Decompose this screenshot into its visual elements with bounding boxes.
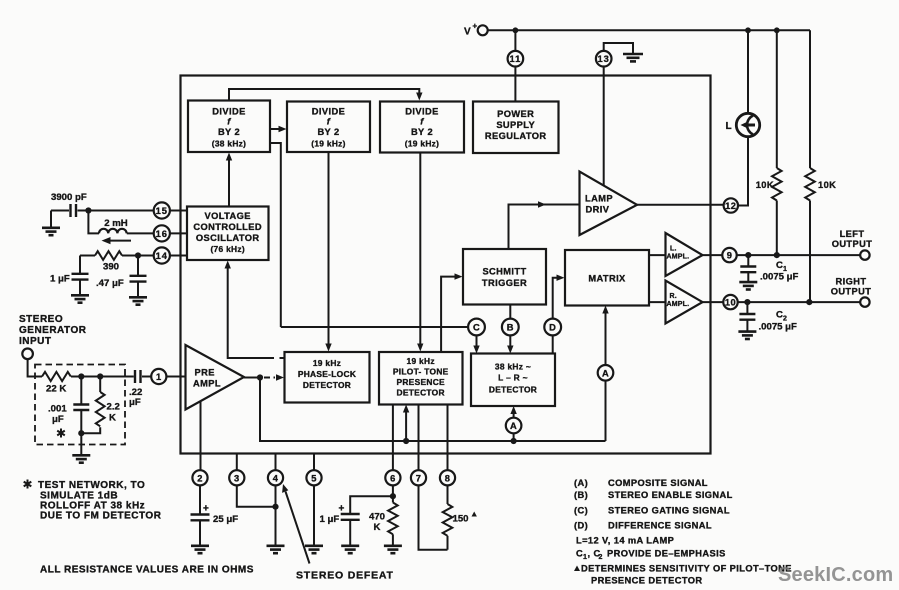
wire lamp to pin 12 bbox=[738, 137, 748, 206]
pin 3 bbox=[229, 470, 244, 485]
svg-text:.0075 μF: .0075 μF bbox=[760, 272, 799, 283]
matrix block bbox=[565, 250, 649, 306]
svg-text:C: C bbox=[776, 310, 783, 321]
wire pin 7 to 150 bottom bbox=[419, 485, 448, 549]
svg-text:BY 2: BY 2 bbox=[218, 127, 240, 137]
svg-text:2 mH: 2 mH bbox=[104, 218, 128, 229]
wire node A left into L-R detector bbox=[510, 406, 516, 418]
ground top right bbox=[623, 54, 643, 61]
legend stereo gating signal bbox=[574, 505, 730, 515]
stereo defeat pointer arrow bbox=[282, 484, 394, 582]
svg-text:REGULATOR: REGULATOR bbox=[485, 131, 547, 141]
svg-text:(19 kHz): (19 kHz) bbox=[405, 139, 440, 149]
svg-text:TRIGGER: TRIGGER bbox=[482, 278, 527, 288]
svg-text:+: + bbox=[473, 22, 478, 31]
ground under .47uF bbox=[129, 297, 147, 304]
svg-text:L=12 V, 14 mA LAMP: L=12 V, 14 mA LAMP bbox=[576, 536, 674, 546]
wire composite up into pilot detector bbox=[403, 405, 409, 442]
asterisk in test network bbox=[57, 429, 65, 438]
wire pin 10 to right output bbox=[738, 301, 860, 303]
node A right bbox=[598, 365, 614, 381]
svg-text:PROVIDE DE–EMPHASIS: PROVIDE DE–EMPHASIS bbox=[607, 549, 726, 559]
label stereo generator input bbox=[19, 314, 87, 347]
svg-text:μF: μF bbox=[52, 414, 64, 425]
svg-text:22 K: 22 K bbox=[46, 384, 66, 395]
pin 7 bbox=[411, 470, 426, 485]
legend stereo enable signal bbox=[574, 490, 733, 500]
wire preamp output bbox=[244, 377, 262, 379]
svg-text:4: 4 bbox=[273, 473, 279, 483]
svg-text:10K: 10K bbox=[818, 180, 836, 190]
wire pin 4 stub bbox=[275, 454, 277, 471]
svg-text:(76 kHz): (76 kHz) bbox=[210, 244, 245, 254]
capacitor C1 .0075uF bbox=[740, 255, 798, 282]
svg-text:16: 16 bbox=[156, 229, 168, 239]
wire rail to lamp bbox=[747, 30, 749, 113]
capacitor .47uF bbox=[96, 256, 147, 297]
svg-text:25 μF: 25 μF bbox=[213, 514, 238, 525]
node junction rail to resistor 10K left bbox=[774, 27, 780, 33]
ground under 470K bbox=[384, 546, 402, 553]
svg-text:12: 12 bbox=[725, 201, 736, 211]
wire pilot detector to pin 6 bbox=[392, 405, 394, 471]
ground under pin 2 bbox=[191, 546, 209, 553]
pin 6 bbox=[385, 470, 400, 485]
wire pin 15 to VCO bbox=[170, 210, 187, 212]
ground under 3900 pF bbox=[42, 228, 60, 235]
svg-text:MATRIX: MATRIX bbox=[588, 274, 626, 284]
wire pin 6 branch to 1uF bbox=[350, 485, 393, 513]
wire pin 9 to left output bbox=[737, 254, 860, 256]
wire pin 1 to preamp bbox=[166, 376, 185, 378]
wire 3900pF to ground bbox=[50, 211, 52, 228]
svg-text:f: f bbox=[227, 117, 231, 127]
svg-text:1 μF: 1 μF bbox=[50, 274, 70, 285]
wire right amplifier to pin 10 bbox=[703, 301, 724, 303]
svg-text:VOLTAGE: VOLTAGE bbox=[205, 211, 251, 221]
voltage controlled oscillator block bbox=[187, 207, 269, 261]
svg-text:RIGHT: RIGHT bbox=[836, 277, 867, 287]
svg-text:.0075 μF: .0075 μF bbox=[759, 322, 798, 333]
capacitor 3900 pF bbox=[51, 192, 88, 217]
wire pin 11 to power supply regulator bbox=[514, 67, 516, 102]
wire test network to ground bbox=[80, 433, 82, 454]
svg-text:C: C bbox=[776, 260, 783, 271]
svg-text:GENERATOR: GENERATOR bbox=[19, 325, 87, 336]
wire node C into L-R detector bbox=[473, 335, 479, 353]
wire divider1 38kHz output down to node C line bbox=[270, 143, 281, 327]
svg-text:13: 13 bbox=[598, 54, 610, 64]
resistor 10K right bbox=[805, 168, 836, 201]
ground under pin 5 bbox=[305, 546, 323, 553]
svg-text:CONTROLLED: CONTROLLED bbox=[193, 222, 262, 232]
svg-text:2: 2 bbox=[197, 473, 203, 483]
input terminal bbox=[22, 349, 33, 360]
wire pin 5 to ground bbox=[313, 485, 315, 545]
svg-text:DIVIDE: DIVIDE bbox=[405, 107, 438, 117]
svg-text:OUTPUT: OUTPUT bbox=[832, 239, 873, 249]
resistor 390 bbox=[80, 251, 154, 272]
wire pilot detector to pin 7 bbox=[418, 405, 420, 471]
capacitor 1uF left bbox=[50, 256, 89, 295]
svg-text:DETECTOR: DETECTOR bbox=[489, 385, 537, 395]
svg-text:SCHMITT: SCHMITT bbox=[482, 267, 526, 277]
svg-text:DETERMINES SENSITIVITY OF PILO: DETERMINES SENSITIVITY OF PILOT–TONE bbox=[581, 564, 792, 574]
svg-text:9: 9 bbox=[727, 251, 733, 261]
node junction pin3 pin4 bbox=[272, 504, 278, 510]
op-amp preamp bbox=[186, 345, 245, 410]
node junction rail to lamp bbox=[745, 27, 751, 33]
svg-text:15: 15 bbox=[156, 206, 168, 216]
divider block DIVIDE BY 2 (19 kHz) first bbox=[287, 102, 370, 153]
phase-lock detector block bbox=[285, 352, 370, 403]
svg-text:19 kHz: 19 kHz bbox=[313, 358, 341, 368]
svg-text:5: 5 bbox=[311, 473, 317, 483]
svg-text:+: + bbox=[203, 504, 209, 515]
ground under C2 bbox=[738, 332, 756, 339]
resistor 150 bbox=[443, 485, 477, 549]
wire composite up to node A left bbox=[513, 433, 515, 441]
ground under C1 bbox=[739, 282, 757, 289]
svg-text:OSCILLATOR: OSCILLATOR bbox=[196, 233, 260, 243]
wire pin 3 stub bbox=[236, 454, 238, 471]
svg-text:K: K bbox=[374, 522, 381, 533]
wire divider2 output down to phase-lock detector bbox=[325, 152, 331, 352]
pilot tone presence detector block bbox=[379, 352, 463, 405]
svg-text:(38 kHz): (38 kHz) bbox=[212, 139, 247, 149]
svg-text:PRESENCE DETECTOR: PRESENCE DETECTOR bbox=[591, 576, 703, 586]
node B bbox=[502, 319, 519, 336]
svg-text:STEREO GATING SIGNAL: STEREO GATING SIGNAL bbox=[608, 505, 730, 515]
pin 9 bbox=[722, 248, 736, 262]
svg-text:AMPL.: AMPL. bbox=[667, 301, 690, 308]
node D bbox=[544, 319, 561, 336]
svg-text:DIFFERENCE SIGNAL: DIFFERENCE SIGNAL bbox=[608, 520, 712, 530]
pin 12 bbox=[724, 198, 738, 212]
node junction composite to pilot detector bbox=[403, 438, 409, 444]
svg-text:8: 8 bbox=[445, 473, 451, 483]
svg-text:470: 470 bbox=[369, 512, 385, 523]
node junction C1 bbox=[745, 252, 751, 258]
legend difference signal bbox=[574, 520, 712, 530]
op-amp lamp driver bbox=[580, 172, 638, 236]
svg-text:V: V bbox=[464, 27, 471, 38]
svg-text:f: f bbox=[327, 117, 331, 127]
node junction 22K / .001uF bbox=[78, 373, 84, 379]
right output terminal bbox=[831, 277, 872, 307]
arrow under inductor bbox=[102, 237, 132, 244]
wire junction to pin 15 bbox=[88, 210, 153, 212]
svg-text:A: A bbox=[602, 368, 609, 378]
op-amp right amplifier bbox=[666, 281, 703, 324]
svg-text:PRE: PRE bbox=[195, 368, 215, 378]
svg-text:LAMP: LAMP bbox=[585, 194, 613, 204]
svg-text:(D): (D) bbox=[574, 520, 588, 530]
svg-text:PRESENCE: PRESENCE bbox=[396, 377, 445, 387]
svg-text:6: 6 bbox=[390, 473, 396, 483]
svg-text:.47 μF: .47 μF bbox=[96, 278, 124, 289]
svg-text:390: 390 bbox=[103, 262, 119, 273]
node junction 3900pF / pin15 / inductor bbox=[85, 207, 91, 213]
svg-text:1 μF: 1 μF bbox=[320, 514, 340, 525]
svg-text:μF: μF bbox=[129, 397, 141, 408]
pin 1 bbox=[151, 369, 166, 384]
wire divider3 output down to pilot-tone detector bbox=[417, 153, 423, 352]
dashed test network box bbox=[35, 365, 125, 445]
svg-text:PHASE-LOCK: PHASE-LOCK bbox=[298, 369, 356, 379]
pin 4 bbox=[268, 470, 283, 485]
svg-text:19 kHz: 19 kHz bbox=[407, 356, 435, 366]
node C bbox=[468, 319, 485, 336]
IC package outline bbox=[181, 76, 711, 454]
svg-text:STEREO: STEREO bbox=[19, 314, 63, 325]
wire node A right into matrix bbox=[602, 306, 608, 366]
divider block DIVIDE BY 2 (38 kHz) bbox=[188, 101, 270, 153]
wire rail to 10K right bbox=[809, 30, 811, 168]
svg-text:SUPPLY: SUPPLY bbox=[496, 120, 535, 130]
wire pin 3 to pin 4 junction bbox=[237, 485, 276, 506]
resistor 22K bbox=[42, 372, 134, 395]
svg-text:C: C bbox=[473, 323, 480, 333]
wire pin 13 to lamp driver top bbox=[603, 67, 605, 186]
pin 8 bbox=[440, 470, 455, 485]
wire dashed arrow preamp to phase-lock detector bbox=[264, 374, 284, 380]
svg-text:SeekIC.com: SeekIC.com bbox=[778, 564, 893, 586]
svg-text:STEREO DEFEAT: STEREO DEFEAT bbox=[296, 570, 394, 582]
op-amp left amplifier bbox=[666, 233, 703, 276]
wire feedback divider1 top to divider3 top bbox=[229, 89, 423, 101]
wire composite up to node A right bbox=[605, 381, 607, 441]
svg-text:BY 2: BY 2 bbox=[411, 127, 433, 137]
wire pin 14 to VCO bbox=[170, 255, 187, 257]
svg-text:(C): (C) bbox=[574, 505, 588, 515]
svg-text:11: 11 bbox=[509, 54, 521, 64]
pin 5 bbox=[306, 470, 321, 485]
svg-text:D: D bbox=[549, 323, 556, 333]
wire rail to 10K left bbox=[776, 30, 778, 168]
wire pilot detector output up to schmitt trigger bbox=[441, 273, 462, 352]
svg-text:PILOT- TONE: PILOT- TONE bbox=[393, 367, 449, 377]
svg-text:TEST NETWORK, TO: TEST NETWORK, TO bbox=[38, 480, 145, 491]
svg-text:150: 150 bbox=[453, 514, 469, 525]
wire L-R detector to node D bbox=[552, 335, 554, 353]
svg-text:7: 7 bbox=[416, 473, 422, 483]
ground under pin 4 bbox=[267, 546, 285, 553]
pin 16 bbox=[154, 225, 170, 241]
capacitor 1uF bottom bbox=[320, 504, 360, 546]
svg-text:10K: 10K bbox=[756, 180, 774, 190]
wire preamp to pin 2 bbox=[200, 402, 202, 471]
divider block DIVIDE BY 2 (19 kHz) second bbox=[380, 102, 464, 153]
capacitor .22 uF bbox=[129, 370, 151, 408]
capacitor .001 uF bbox=[48, 377, 89, 434]
svg-text:DUE TO FM DETECTOR: DUE TO FM DETECTOR bbox=[40, 511, 162, 522]
resistor 2.2K bbox=[84, 377, 120, 434]
wire pin 16 to VCO bbox=[170, 232, 187, 234]
svg-text:1: 1 bbox=[156, 372, 162, 382]
wire lamp driver output to pin 12 bbox=[637, 204, 724, 206]
capacitor 25uF on pin 2 bbox=[191, 485, 239, 545]
node junction C2 bbox=[744, 299, 750, 305]
svg-text:f: f bbox=[420, 117, 424, 127]
resistor 470K bbox=[369, 496, 398, 545]
wire composite signal from preamp down and across bbox=[260, 378, 606, 442]
svg-text:INPUT: INPUT bbox=[19, 336, 52, 347]
schmitt trigger block bbox=[463, 249, 546, 305]
ground under 1uF left bbox=[71, 295, 89, 302]
svg-text:POWER: POWER bbox=[497, 109, 534, 119]
svg-text:(A): (A) bbox=[574, 478, 588, 488]
svg-text:1: 1 bbox=[583, 554, 587, 561]
pin 2 bbox=[192, 470, 207, 485]
pin 15 bbox=[154, 202, 170, 218]
pin 10 bbox=[723, 295, 737, 309]
ground under test network bbox=[72, 455, 90, 462]
wire matrix to left amplifier bbox=[649, 254, 666, 256]
svg-text:A: A bbox=[510, 421, 517, 431]
svg-text:10: 10 bbox=[725, 298, 736, 308]
legend de-emphasis note bbox=[576, 549, 726, 562]
38 kHz L-R detector block bbox=[471, 354, 555, 407]
wire left amplifier to pin 9 bbox=[703, 254, 723, 256]
svg-text:L – R ~: L – R ~ bbox=[498, 373, 528, 383]
svg-text:R.: R. bbox=[670, 293, 677, 300]
wire 38kHz line to node C bbox=[281, 326, 468, 328]
wire junction down to inductor bbox=[88, 211, 99, 234]
svg-text:BY 2: BY 2 bbox=[317, 127, 339, 137]
lamp L bbox=[726, 113, 760, 136]
legend sensitivity note bbox=[574, 564, 792, 586]
legend lamp note bbox=[576, 536, 674, 546]
wire V+ supply rail bbox=[488, 29, 810, 31]
node junction pin 6 / 1uF / 470K bbox=[390, 493, 396, 499]
node junction 390 / .47uF / pin14 bbox=[135, 252, 141, 258]
note all resistance values bbox=[40, 565, 254, 576]
svg-text:2.2: 2.2 bbox=[107, 402, 120, 413]
pin 11 bbox=[508, 51, 524, 67]
wire matrix to right amplifier bbox=[649, 301, 666, 303]
wire divider1 to divider2 with arrow bbox=[270, 126, 287, 132]
svg-text:.001: .001 bbox=[48, 404, 67, 415]
svg-text:DETECTOR: DETECTOR bbox=[303, 380, 351, 390]
wire 10K left to left output line bbox=[776, 201, 778, 256]
node junction 22K / 2.2K bbox=[97, 373, 103, 379]
wire 10K right to right output line bbox=[809, 201, 811, 303]
svg-text:3: 3 bbox=[234, 473, 240, 483]
pin 14 bbox=[154, 247, 170, 263]
legend composite signal bbox=[574, 478, 708, 488]
wire rail to pin 11 bbox=[514, 30, 516, 51]
svg-text:(19 kHz): (19 kHz) bbox=[311, 139, 346, 149]
node junction 2.2K / .001uF / ground bbox=[78, 430, 84, 436]
wire pilot detector to pin 8 bbox=[447, 405, 449, 471]
svg-text:DIVIDE: DIVIDE bbox=[312, 107, 345, 117]
wire node D to matrix input bbox=[553, 275, 565, 319]
svg-text:2: 2 bbox=[599, 554, 603, 561]
svg-text:L: L bbox=[726, 121, 733, 132]
svg-text:STEREO ENABLE SIGNAL: STEREO ENABLE SIGNAL bbox=[608, 490, 733, 500]
node junction rail to pin 11 bbox=[513, 27, 519, 33]
node junction composite to L-R detector bbox=[510, 438, 516, 444]
wire node B into L-R detector bbox=[507, 335, 513, 353]
wire schmitt trigger to node B bbox=[509, 305, 511, 319]
watermark bbox=[778, 564, 893, 586]
wire phase-lock detector to VCO control bbox=[225, 261, 285, 359]
svg-text:DRIV: DRIV bbox=[586, 205, 610, 215]
node junction 10K right / right output bbox=[806, 299, 812, 305]
svg-text:ALL RESISTANCE VALUES ARE IN O: ALL RESISTANCE VALUES ARE IN OHMS bbox=[40, 565, 254, 576]
wire pin 4 to ground bbox=[275, 485, 277, 545]
svg-text:14: 14 bbox=[156, 251, 168, 261]
ground under 1uF bottom bbox=[341, 546, 359, 553]
svg-text:K: K bbox=[109, 413, 116, 424]
node junction 10K left / left output bbox=[774, 252, 780, 258]
svg-text:LEFT: LEFT bbox=[840, 229, 865, 239]
wire input terminal to 22K bbox=[28, 359, 42, 376]
power supply regulator block bbox=[473, 102, 559, 154]
svg-text:DETECTOR: DETECTOR bbox=[397, 388, 445, 398]
svg-text:(B): (B) bbox=[574, 490, 588, 500]
inductor 2 mH bbox=[99, 218, 154, 233]
pin 13 bbox=[596, 51, 612, 67]
svg-text:OUTPUT: OUTPUT bbox=[831, 287, 872, 297]
svg-text:38 kHz ~: 38 kHz ~ bbox=[495, 362, 531, 372]
node junction preamp output bbox=[257, 374, 263, 380]
resistor 10K left bbox=[756, 168, 782, 201]
capacitor C2 .0075uF bbox=[739, 302, 797, 332]
node A left bbox=[506, 418, 522, 434]
note test network bbox=[24, 480, 162, 522]
svg-text:COMPOSITE SIGNAL: COMPOSITE SIGNAL bbox=[608, 478, 708, 488]
svg-text:3900 pF: 3900 pF bbox=[51, 192, 87, 203]
svg-text:+: + bbox=[339, 504, 345, 515]
left output terminal bbox=[832, 229, 873, 260]
svg-text:B: B bbox=[507, 323, 514, 333]
V+ terminal bbox=[464, 22, 488, 38]
wire VCO output up to divider1 bbox=[226, 153, 232, 207]
svg-text:L.: L. bbox=[670, 246, 677, 253]
svg-text:AMPL.: AMPL. bbox=[667, 254, 690, 261]
svg-text:AMPL: AMPL bbox=[193, 379, 221, 389]
wire pin 13 to ground bbox=[604, 43, 633, 53]
wire pin 5 stub bbox=[313, 454, 315, 471]
svg-text:DIVIDE: DIVIDE bbox=[212, 107, 245, 117]
wire schmitt trigger to lamp driver bbox=[509, 201, 580, 249]
